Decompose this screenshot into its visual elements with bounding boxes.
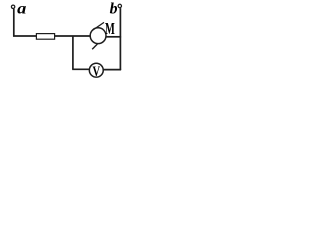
svg-text:a: a <box>17 0 26 17</box>
arrow shaft across motor top <box>92 22 104 30</box>
wire: resistor to motor <box>55 35 91 37</box>
motor M1 circle <box>90 28 106 44</box>
arrow tail (lower stub) <box>92 44 97 49</box>
wire: junction drop toward voltmeter <box>72 36 74 69</box>
wire: voltmeter right lead <box>103 69 121 71</box>
wire: motor right lead <box>106 36 122 38</box>
svg-text:M: M <box>105 19 115 38</box>
terminal b <box>118 4 121 7</box>
wire: voltmeter left lead <box>72 68 89 70</box>
voltmeter V1 circle <box>89 63 103 77</box>
wire: vertical below terminal b <box>119 8 121 70</box>
svg-text:b: b <box>110 0 118 17</box>
svg-text:V: V <box>93 64 101 80</box>
wire: vertical lead below terminal a <box>13 9 15 37</box>
wire: horizontal from a-lead to resistor <box>13 35 36 37</box>
terminal a <box>11 5 14 8</box>
resistor R1 <box>36 34 54 40</box>
